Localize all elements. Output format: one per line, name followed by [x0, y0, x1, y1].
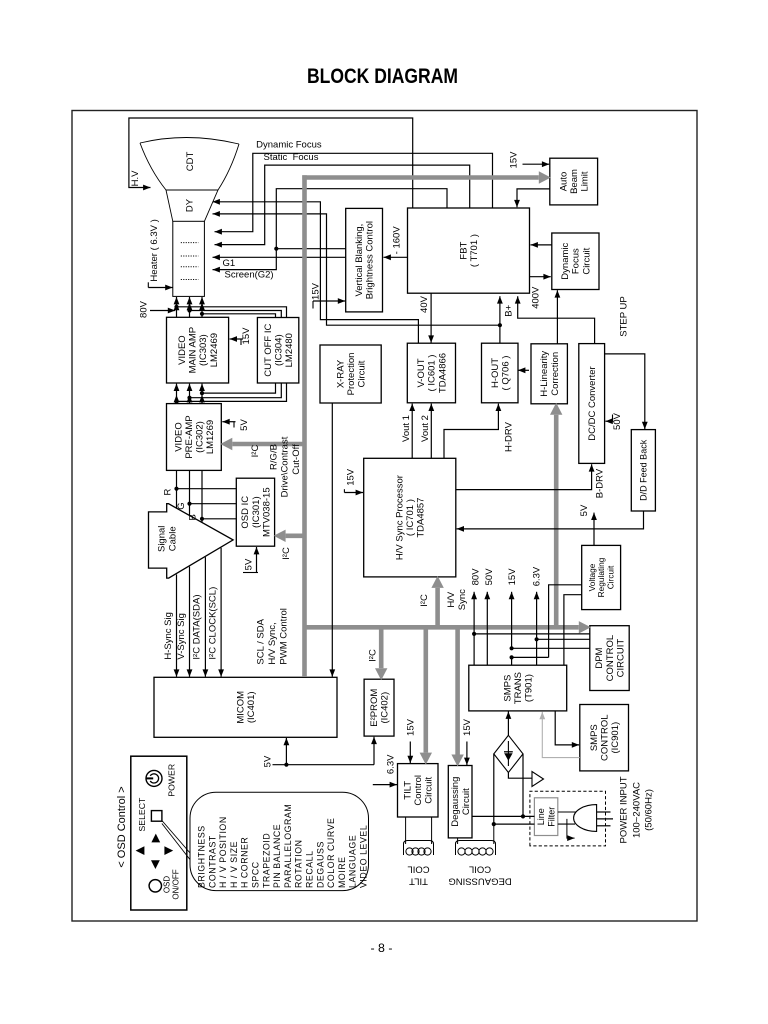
- svg-text:( IC601 ): ( IC601 ): [427, 355, 438, 392]
- svg-text:POWER INPUT: POWER INPUT: [619, 776, 630, 843]
- wire rail 80V to DPM: [474, 633, 590, 635]
- wire tilt coil leg left: [405, 817, 407, 844]
- svg-text:TRAPEZOID: TRAPEZOID: [261, 833, 271, 888]
- bus gray vertical I2C: [302, 175, 307, 677]
- wire 15V tick: [312, 301, 314, 309]
- svg-text:6.3V: 6.3V: [386, 754, 397, 774]
- block H/V Sync Processor IC701: [364, 458, 456, 577]
- block MICOM IC401: [154, 677, 337, 737]
- svg-text:50V: 50V: [484, 568, 495, 586]
- wire 80V arrow: [150, 308, 175, 314]
- label H-DRV: [503, 421, 514, 452]
- wire bridge left leg down: [492, 754, 496, 826]
- label G: [176, 502, 187, 509]
- block Auto Beam Limit: [550, 158, 598, 205]
- wire D/D Feed Back to H/V sync: [457, 511, 644, 532]
- svg-text:Correction: Correction: [550, 352, 561, 396]
- wire cathode arrowhead2 2: [187, 303, 193, 310]
- svg-text:RECALL: RECALL: [305, 850, 315, 888]
- svg-text:5V: 5V: [263, 755, 274, 767]
- wire 15V into Vertical Blanking: [313, 298, 345, 304]
- svg-text:15V: 15V: [462, 718, 473, 736]
- wire Auto Beam Limit to FBT: [514, 189, 550, 207]
- wire Dynamic Focus: [215, 153, 493, 234]
- svg-text:OSD IC: OSD IC: [240, 496, 251, 529]
- svg-text:Dynamic Focus: Dynamic Focus: [256, 140, 322, 151]
- wire stub trans pin3: [511, 657, 513, 665]
- wire 6.3V output: [534, 592, 540, 665]
- label POWER INPUT: [619, 776, 630, 843]
- label 80V smps: [470, 568, 481, 586]
- label I2C osd: [281, 547, 292, 560]
- label 5V voltage reg: [579, 504, 590, 516]
- wire cathode line 2 to CRT neck: [187, 297, 193, 317]
- svg-text:E²PROM: E²PROM: [369, 689, 380, 727]
- label Signal Cable: [156, 526, 178, 552]
- wire DC/DC to D/D Feed Back: [605, 354, 648, 429]
- bus gray I2C H/V sync arrow into processor: [431, 576, 443, 625]
- wire -160V FBT to Vertical Blanking: [384, 254, 408, 260]
- svg-text:LM2480: LM2480: [284, 333, 295, 367]
- svg-text:15V: 15V: [507, 568, 518, 586]
- wire callout line 1: [162, 821, 191, 854]
- svg-text:(IC402): (IC402): [380, 692, 391, 724]
- svg-text:(IC301): (IC301): [251, 496, 262, 528]
- svg-text:CONTROL: CONTROL: [605, 635, 616, 681]
- label OSD Control: [116, 786, 128, 867]
- svg-text:Filter: Filter: [546, 807, 556, 827]
- svg-text:TRANS: TRANS: [513, 672, 524, 704]
- svg-text:Vout 2: Vout 2: [420, 415, 431, 442]
- label B+: [503, 304, 514, 316]
- wire Dynamic Focus Circuit to FBT: [531, 242, 552, 248]
- label 15V hv sync: [345, 468, 356, 486]
- svg-text:Control: Control: [413, 775, 424, 806]
- svg-text:15V: 15V: [508, 151, 519, 169]
- wire tick 15V main amp: [240, 339, 242, 345]
- wire 50V into DC/DC: [605, 418, 613, 424]
- svg-text:(IC303): (IC303): [198, 334, 209, 366]
- svg-text:Signal: Signal: [156, 526, 167, 552]
- wire RGB line 3 preamp to mainamp: [199, 384, 205, 404]
- svg-text:ON/OFF: ON/OFF: [172, 869, 181, 899]
- wire RGB arrowhead2 2: [187, 395, 193, 402]
- signal cable connector arrow shape: [149, 504, 234, 578]
- border frame: [72, 111, 697, 922]
- svg-text:(50/60Hz): (50/60Hz): [644, 789, 655, 831]
- label I2C hv processor: [419, 594, 430, 607]
- svg-text:ROTATION: ROTATION: [294, 839, 304, 888]
- label 15V auto beam: [508, 151, 519, 169]
- label SCL/SDA: [255, 618, 266, 664]
- block D/D Feed Back: [631, 430, 655, 511]
- wire B tap to OSD IC: [202, 518, 236, 520]
- svg-text:100~240VAC: 100~240VAC: [631, 782, 642, 838]
- wire R tap to OSD IC: [177, 488, 237, 490]
- block Line Filter: [534, 798, 557, 836]
- wire H-Sync to MICOM: [174, 575, 180, 677]
- nav arrow up (landscape right): [151, 834, 160, 843]
- svg-text:( IC701 ): ( IC701 ): [405, 499, 416, 536]
- svg-text:B: B: [188, 514, 199, 520]
- wire B-DRV to DC/DC: [456, 464, 595, 489]
- svg-text:H/V Sync Processor: H/V Sync Processor: [394, 475, 405, 560]
- wire tick 15V hv: [343, 489, 345, 492]
- svg-text:H-Sync Sig: H-Sync Sig: [163, 612, 174, 660]
- wire X-RAY to MICOM: [329, 403, 335, 677]
- wire line filter to plug B: [558, 823, 575, 825]
- svg-text:B+: B+: [503, 304, 514, 316]
- wire voltage reg input B: [564, 595, 582, 666]
- svg-text:Heater ( 6.3V ): Heater ( 6.3V ): [149, 219, 160, 281]
- bus gray arrow into Degaussing: [451, 629, 463, 767]
- svg-text:Brightness Control: Brightness Control: [365, 221, 376, 299]
- wire 5V from Voltage Regulating: [591, 513, 597, 546]
- label DEGAUSSING COIL (rotated 180): [448, 864, 511, 887]
- svg-text:OSD: OSD: [163, 876, 172, 894]
- wire B line: [200, 470, 204, 522]
- label 5V osd ic: [243, 558, 254, 570]
- svg-text:TILT: TILT: [409, 876, 428, 887]
- label Vout 1: [401, 415, 412, 442]
- wire DY horizontal yoke from H-OUT node: [213, 211, 500, 325]
- tilt coil symbol: [404, 841, 434, 856]
- wire degauss to line filter A: [472, 815, 534, 817]
- svg-text:Vout 1: Vout 1: [401, 415, 412, 442]
- wire earth hook: [567, 819, 575, 841]
- svg-text:Line: Line: [536, 808, 546, 825]
- wire heater arrow: [148, 285, 172, 291]
- svg-text:COIL: COIL: [407, 864, 429, 875]
- wire plug prong 1: [597, 811, 611, 813]
- svg-text:D/D Feed Back: D/D Feed Back: [639, 439, 649, 501]
- label H/V Sync,: [267, 622, 278, 664]
- svg-text:H-Linearity: H-Linearity: [539, 351, 550, 397]
- wire 15V into H/V sync: [344, 490, 363, 496]
- wire RGB line 1 preamp to mainamp: [174, 384, 180, 404]
- wire plug prong 3: [597, 825, 611, 827]
- wire 400V step-up DC/DC to FBT: [515, 296, 595, 343]
- block OSD IC IC301: [236, 478, 274, 546]
- svg-text:X-RAY: X-RAY: [335, 359, 346, 388]
- svg-text:15V: 15V: [406, 718, 417, 736]
- wire degauss coil leg right: [493, 824, 495, 844]
- svg-text:DEGAUSSING: DEGAUSSING: [448, 876, 511, 887]
- bus gray I2C arrow into OSD IC: [274, 530, 306, 542]
- svg-text:< OSD Control >: < OSD Control >: [116, 786, 128, 867]
- wire H.V from FBT to CDT anode: [129, 118, 413, 208]
- wire 50V output: [484, 592, 490, 665]
- block H-Linearity Correction: [531, 344, 567, 404]
- svg-text:15V: 15V: [310, 282, 321, 300]
- wire Vout1: [409, 404, 415, 459]
- wire H-DRV to H-OUT: [444, 404, 501, 459]
- label 5V micom: [263, 755, 274, 767]
- svg-text:Cut-Off: Cut-Off: [291, 444, 302, 475]
- label 100-240VAC: [631, 782, 642, 838]
- select button: [151, 811, 162, 822]
- block E2PROM IC402: [364, 679, 394, 736]
- svg-text:TDA4866: TDA4866: [437, 353, 448, 393]
- svg-text:PARALLELOGRAM: PARALLELOGRAM: [283, 804, 293, 888]
- svg-text:G: G: [176, 502, 187, 509]
- svg-text:CIRCUIT: CIRCUIT: [616, 639, 627, 678]
- block TILT Control Circuit: [398, 764, 439, 817]
- svg-text:SPCC: SPCC: [251, 861, 261, 888]
- svg-text:I²C: I²C: [419, 594, 430, 607]
- label 400V: [531, 286, 542, 309]
- wire cutoff loop B bottom: [200, 383, 276, 395]
- svg-text:40V: 40V: [419, 295, 430, 313]
- label 80V: [138, 300, 149, 318]
- block SMPS CONTROL IC901: [580, 705, 629, 771]
- svg-text:VIDEO: VIDEO: [173, 422, 184, 452]
- wire V-Sync to MICOM: [187, 567, 193, 677]
- svg-text:5V: 5V: [579, 504, 590, 516]
- wire rail 6.3V to DPM: [537, 638, 590, 640]
- block VIDEO MAIN AMP IC303: [167, 317, 229, 383]
- nav arrow right (landscape up): [164, 846, 173, 855]
- svg-text:MICOM: MICOM: [236, 691, 247, 724]
- label 50V: [612, 412, 623, 430]
- label 50/60Hz: [644, 789, 655, 831]
- dashed enclosure line filter and plug: [530, 791, 606, 846]
- wire R line cable to preamp: [174, 470, 178, 508]
- svg-text:STEP UP: STEP UP: [619, 296, 630, 336]
- svg-text:PWM Control: PWM Control: [278, 608, 289, 664]
- svg-text:H / V POSITION: H / V POSITION: [218, 816, 228, 888]
- svg-text:Dynamic: Dynamic: [560, 242, 571, 279]
- svg-text:5V: 5V: [243, 558, 254, 570]
- svg-text:COIL: COIL: [469, 864, 491, 875]
- svg-text:I²C: I²C: [281, 547, 292, 560]
- svg-text:(IC401): (IC401): [246, 691, 257, 723]
- block VIDEO PRE-AMP IC302: [167, 404, 222, 471]
- svg-text:Vertical Blanking,: Vertical Blanking,: [354, 224, 365, 297]
- svg-text:Beam: Beam: [569, 169, 580, 194]
- svg-text:CONTROL: CONTROL: [600, 714, 611, 760]
- svg-text:Screen(G2): Screen(G2): [225, 270, 274, 281]
- wire tilt coil leg right: [431, 817, 433, 844]
- svg-text:Static Focus: Static Focus: [264, 152, 319, 163]
- wire cathode line 3 to CRT neck: [199, 297, 205, 317]
- wire 15V into Main Amp: [230, 336, 243, 342]
- wire to line filter B: [494, 823, 535, 825]
- svg-text:6.3V: 6.3V: [532, 566, 543, 586]
- svg-text:15V: 15V: [241, 327, 252, 345]
- svg-text:R/G/B: R/G/B: [269, 444, 280, 470]
- wire rail 15V to DPM: [510, 646, 590, 650]
- wire Screen G2 from FBT: [213, 189, 448, 273]
- wire Vout2: [428, 404, 434, 459]
- svg-text:R: R: [163, 488, 174, 495]
- block Voltage Regulating Circuit: [582, 545, 621, 609]
- svg-text:Auto: Auto: [558, 172, 569, 192]
- block Dynamic Focus Circuit: [552, 233, 599, 290]
- svg-text:LANGUAGE: LANGUAGE: [348, 835, 358, 888]
- wire 5V to E2PROM: [371, 737, 377, 765]
- wire tick 5V preamp: [233, 422, 235, 428]
- block DPM CONTROL CIRCUIT: [590, 626, 629, 691]
- svg-text:- 160V: - 160V: [392, 226, 403, 255]
- label 15V degauss: [462, 718, 473, 736]
- label 5V preamp: [239, 419, 250, 431]
- label B: [188, 514, 199, 520]
- svg-text:(IC901): (IC901): [610, 722, 621, 754]
- svg-text:Circuit: Circuit: [581, 247, 592, 274]
- svg-text:Circuit: Circuit: [605, 565, 615, 589]
- svg-text:Limit: Limit: [580, 171, 591, 191]
- wire RGB arrowhead2 1: [174, 395, 180, 402]
- svg-text:CUT OFF IC: CUT OFF IC: [263, 324, 274, 377]
- svg-text:DEGAUSS: DEGAUSS: [315, 841, 325, 888]
- wire 5V rail: [273, 763, 375, 767]
- svg-text:CONTRAST: CONTRAST: [207, 835, 217, 888]
- svg-text:Circuit: Circuit: [424, 776, 435, 803]
- bus gray I2C arrow into Pre-Amp: [220, 438, 306, 450]
- OSD menu bubble: [190, 792, 369, 890]
- wire H-Linearity to Dynamic Focus Circuit: [555, 290, 561, 344]
- svg-text:DPM: DPM: [594, 647, 605, 668]
- wire 15V into Degaussing: [464, 742, 470, 766]
- wire line filter to plug A: [558, 811, 577, 813]
- svg-text:50V: 50V: [612, 412, 623, 430]
- block SMPS TRANS T901: [469, 665, 567, 711]
- label PWM Control: [278, 608, 289, 664]
- wire tick 50V: [612, 415, 614, 422]
- svg-text:(IC302): (IC302): [195, 421, 206, 453]
- svg-text:5V: 5V: [239, 419, 250, 431]
- label CDT: [185, 152, 196, 172]
- svg-text:CDT: CDT: [185, 152, 196, 172]
- block V-OUT IC601 TDA4866: [407, 343, 455, 403]
- label 15V tilt: [406, 718, 417, 736]
- wire rail to voltage regulating: [510, 655, 549, 659]
- block FBT T701: [408, 208, 530, 293]
- wire cutoff loop R bottom: [174, 383, 286, 404]
- bridge rectifier: [494, 735, 523, 772]
- svg-text:V-Sync Sig: V-Sync Sig: [176, 613, 187, 659]
- svg-text:SCL / SDA: SCL / SDA: [255, 618, 266, 664]
- wire degauss coil leg left: [457, 838, 459, 844]
- svg-text:H.V: H.V: [130, 170, 141, 187]
- wire 80V output: [471, 592, 477, 665]
- wire 5V into Pre-Amp: [222, 419, 235, 425]
- wire SDA to MICOM: [203, 557, 209, 677]
- wire cutoff loop R top: [174, 305, 286, 318]
- svg-text:Cable: Cable: [167, 526, 178, 551]
- wire voltage reg input A: [549, 585, 582, 658]
- label Drive Contrast: [280, 436, 291, 497]
- bus gray bottom to DPM: [305, 621, 591, 633]
- label I2C preamp: [250, 445, 261, 458]
- svg-text:(IC304): (IC304): [273, 334, 284, 366]
- wire RGB arrowhead2 3: [199, 395, 205, 402]
- wire 40V FBT to V-OUT: [428, 293, 434, 343]
- svg-text:TILT: TILT: [402, 781, 413, 800]
- svg-text:LM2469: LM2469: [209, 333, 220, 367]
- block X-RAY Protection Circuit: [320, 345, 381, 403]
- label R/G/B: [269, 444, 280, 470]
- wire 6.3V into TILT: [373, 782, 397, 788]
- wire bridge right leg down: [521, 754, 525, 819]
- svg-text:MTV038-15: MTV038-15: [261, 487, 272, 537]
- svg-text:G1: G1: [223, 258, 236, 269]
- svg-text:MOIRE: MOIRE: [337, 856, 347, 888]
- wire 15V into Auto Beam Limit: [523, 161, 550, 167]
- svg-text:BLOCK DIAGRAM: BLOCK DIAGRAM: [307, 64, 458, 88]
- svg-text:I²C: I²C: [250, 445, 261, 458]
- label 40V: [419, 295, 430, 313]
- svg-text:FBT: FBT: [459, 241, 470, 259]
- svg-text:SMPS: SMPS: [589, 724, 600, 751]
- svg-text:( T701 ): ( T701 ): [469, 234, 480, 267]
- svg-text:400V: 400V: [531, 286, 542, 309]
- label 15V vertical blanking: [310, 282, 321, 300]
- svg-text:- 8 -: - 8 -: [371, 941, 393, 955]
- svg-text:Circuit: Circuit: [357, 360, 368, 387]
- wire Static Focus: [215, 165, 470, 247]
- svg-text:H-DRV: H-DRV: [503, 421, 514, 452]
- svg-text:H/V Sync,: H/V Sync,: [267, 622, 278, 664]
- wire SMPS CONTROL drive to TRANS: [539, 712, 579, 758]
- label Cut-Off: [291, 444, 302, 475]
- svg-text:I²C CLOCK(SCL): I²C CLOCK(SCL): [207, 587, 218, 660]
- wire 15V output: [509, 592, 515, 649]
- wire cathode line 1 to CRT neck: [174, 297, 180, 317]
- svg-text:VIDEO LEVEL: VIDEO LEVEL: [359, 825, 369, 888]
- wire plug prong 2: [597, 818, 613, 820]
- nav arrow down (landscape left): [151, 860, 160, 869]
- svg-text:80V: 80V: [470, 568, 481, 586]
- label DY: [184, 198, 195, 212]
- svg-text:(T901): (T901): [524, 674, 535, 702]
- svg-text:Degaussing: Degaussing: [450, 777, 461, 827]
- CRT tube CDT funnel: [140, 137, 239, 221]
- svg-text:LM1269: LM1269: [205, 420, 216, 454]
- wire cutoff loop G bottom: [187, 383, 281, 400]
- bus gray I2C arrow into E2PROM: [375, 629, 387, 680]
- label Vout 2: [420, 415, 431, 442]
- block DC/DC Converter: [579, 344, 605, 464]
- wire G tap to OSD IC: [190, 503, 237, 505]
- svg-text:Focus: Focus: [571, 248, 582, 274]
- svg-text:BRIGHTNESS: BRIGHTNESS: [197, 825, 207, 888]
- svg-text:( Q706 ): ( Q706 ): [500, 356, 511, 391]
- block CUT OFF IC IC304: [257, 318, 298, 384]
- degaussing coil symbol: [456, 841, 496, 856]
- wire cutoff loop G top: [187, 308, 281, 317]
- degauss relay triangle: [532, 772, 544, 787]
- svg-text:SMPS: SMPS: [502, 675, 513, 702]
- OSD on/off button: [149, 880, 161, 892]
- svg-text:I²C DATA(SDA): I²C DATA(SDA): [192, 595, 203, 660]
- label 15V main amp: [241, 327, 252, 345]
- wire cutoff loop B top: [200, 312, 276, 318]
- wire cathode arrowhead2 1: [174, 303, 180, 310]
- svg-text:DY: DY: [184, 198, 195, 212]
- svg-text:DC/DC Converter: DC/DC Converter: [587, 366, 598, 440]
- label 50V smps: [484, 568, 495, 586]
- OSD menu item list: [197, 804, 369, 888]
- wire 5V rail bar: [243, 572, 258, 574]
- nav arrow left (landscape down): [136, 846, 145, 855]
- svg-text:V-OUT: V-OUT: [416, 358, 427, 387]
- svg-text:COLOR CURVE: COLOR CURVE: [326, 818, 336, 888]
- wire G line: [187, 470, 191, 515]
- svg-text:I²C: I²C: [367, 649, 378, 662]
- power button icon: [146, 770, 162, 786]
